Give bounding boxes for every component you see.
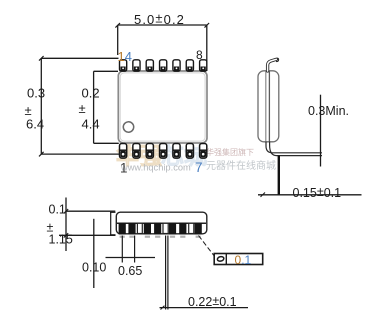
svg-text:0.10: 0.10 bbox=[82, 261, 106, 275]
dimension 1.15±0.1 text bbox=[47, 203, 73, 247]
side view gray feet under pins bbox=[120, 236, 201, 238]
svg-text:4.4: 4.4 bbox=[82, 117, 100, 132]
arrow ticks 1.15 bbox=[64, 209, 68, 238]
seating arrow tick bbox=[261, 193, 266, 197]
bottom lead gull wing bbox=[266, 142, 322, 153]
bottom pins row (pins 1..7) bbox=[120, 144, 207, 159]
svg-text:1.15: 1.15 bbox=[49, 233, 73, 247]
top lead hook bbox=[268, 59, 277, 71]
standoff thick line bbox=[278, 156, 280, 195]
svg-text:0.1: 0.1 bbox=[235, 253, 252, 267]
arrow ticks 5.0 bbox=[115, 23, 209, 28]
watermark hqchip outline logo bbox=[116, 143, 207, 169]
svg-text:0.3Min.: 0.3Min. bbox=[308, 104, 349, 118]
svg-text:华强集团旗下: 华强集团旗下 bbox=[206, 147, 254, 157]
svg-text:0.1: 0.1 bbox=[49, 203, 66, 217]
svg-text:±: ± bbox=[79, 101, 86, 116]
svg-text:元器件在线商城: 元器件在线商城 bbox=[206, 159, 276, 172]
svg-text:6.4: 6.4 bbox=[26, 117, 44, 132]
svg-text:0.22±0.1: 0.22±0.1 bbox=[188, 294, 237, 309]
svg-text:7: 7 bbox=[195, 160, 203, 175]
seating plane symbol bbox=[217, 256, 224, 262]
dimension 4.4±0.2 line bbox=[94, 71, 119, 143]
dimension 4.4±0.2 text bbox=[79, 86, 100, 132]
arrow tick 0.22 bbox=[161, 306, 165, 310]
side view parting line bbox=[117, 222, 206, 224]
pin 1 indicator circle bbox=[123, 122, 133, 132]
left bracket bbox=[110, 212, 116, 235]
svg-text:0.2: 0.2 bbox=[82, 86, 100, 101]
arrow ticks 6.4 bbox=[39, 56, 44, 156]
side view black pins (front row) bbox=[119, 223, 202, 235]
dimension 0.65 bbox=[106, 236, 156, 263]
dimension 6.4±0.3 text bbox=[25, 86, 46, 132]
svg-text:8: 8 bbox=[196, 48, 203, 62]
dimension 0.3Min line bbox=[320, 95, 322, 167]
svg-text:1: 1 bbox=[120, 161, 128, 176]
side view outline pins (back row) bbox=[137, 223, 193, 233]
top pins row (pins 14..8) bbox=[120, 60, 207, 71]
dimension 0.22±0.1 bbox=[160, 236, 249, 310]
svg-text:www.hqchip.com: www.hqchip.com bbox=[120, 163, 191, 173]
side view body bbox=[116, 212, 207, 234]
dimension 1.15±0.1 bbox=[59, 198, 116, 252]
dimension 5.0 line bbox=[118, 25, 207, 71]
lead through body bbox=[265, 72, 267, 142]
package body top view bbox=[118, 71, 207, 143]
dimension 0.10 line bbox=[93, 219, 95, 288]
dimension 6.4±0.3 line bbox=[41, 58, 126, 154]
svg-text:0.65: 0.65 bbox=[118, 264, 142, 278]
leader line to tolerance box bbox=[199, 236, 216, 258]
seating plane line bbox=[258, 194, 362, 196]
end view body bbox=[258, 71, 279, 142]
svg-text:14: 14 bbox=[118, 49, 132, 64]
tolerance frame box 0.1 bbox=[214, 253, 263, 267]
svg-text:0.15±0.1: 0.15±0.1 bbox=[293, 185, 342, 200]
svg-text:0.3: 0.3 bbox=[27, 86, 45, 101]
